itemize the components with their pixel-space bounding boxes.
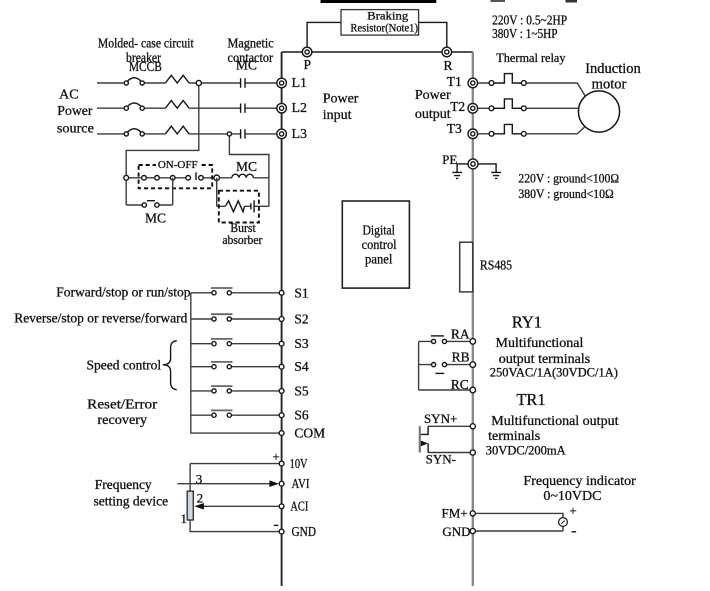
svg-text:SYN-: SYN- (426, 451, 456, 466)
svg-text:motor: motor (592, 77, 627, 93)
svg-text:ON-OFF: ON-OFF (158, 159, 198, 171)
svg-text:MC: MC (145, 211, 166, 226)
svg-text:380V : 1~5HP: 380V : 1~5HP (492, 26, 557, 41)
svg-text:RA: RA (451, 326, 470, 341)
svg-text:AC: AC (59, 88, 78, 103)
svg-text:Speed control: Speed control (86, 358, 161, 373)
svg-text:Power: Power (57, 104, 93, 119)
svg-text:L1: L1 (292, 76, 308, 91)
svg-text:control: control (362, 237, 397, 252)
svg-text:Frequency: Frequency (95, 477, 152, 492)
svg-text:T3: T3 (447, 121, 462, 136)
svg-text:setting device: setting device (93, 494, 168, 509)
svg-text:Magnetic: Magnetic (228, 36, 274, 51)
svg-text:R: R (443, 58, 452, 73)
svg-text:Reverse/stop or reverse/forwar: Reverse/stop or reverse/forward (14, 311, 187, 326)
svg-text:GND: GND (442, 524, 470, 539)
svg-text:source: source (57, 122, 94, 137)
svg-text:Reset/Error: Reset/Error (87, 397, 158, 412)
svg-text:input: input (323, 108, 352, 123)
svg-text:T2: T2 (450, 99, 465, 114)
svg-text:panel: panel (365, 252, 393, 267)
svg-text:MC: MC (236, 58, 257, 73)
svg-text:+: + (272, 449, 279, 464)
svg-text:S4: S4 (294, 359, 309, 374)
svg-text:Multifunctional: Multifunctional (496, 336, 584, 351)
svg-text:absorber: absorber (222, 232, 263, 247)
svg-text:Induction: Induction (585, 61, 641, 77)
svg-text:Thermal relay: Thermal relay (496, 50, 566, 65)
svg-text:0~10VDC: 0~10VDC (543, 489, 601, 504)
svg-text:P: P (304, 57, 312, 72)
svg-text:Power: Power (323, 92, 359, 107)
svg-text:S2: S2 (294, 312, 308, 327)
svg-text:Power: Power (415, 88, 451, 103)
svg-text:Forward/stop or run/stop: Forward/stop or run/stop (56, 284, 190, 299)
svg-text:MCCB: MCCB (129, 59, 162, 74)
svg-text:220V : ground<100Ω: 220V : ground<100Ω (518, 171, 619, 186)
svg-text:RY1: RY1 (512, 313, 542, 332)
svg-text:Digital: Digital (362, 223, 395, 238)
svg-text:RB: RB (452, 350, 470, 365)
svg-text:COM: COM (294, 426, 325, 441)
svg-text:2: 2 (197, 491, 204, 506)
svg-text:GND: GND (292, 525, 317, 540)
svg-text:MC: MC (236, 159, 257, 174)
svg-text:250VAC/1A(30VDC/1A): 250VAC/1A(30VDC/1A) (490, 365, 618, 379)
svg-text:output: output (415, 107, 451, 122)
svg-text:Frequency indicator: Frequency indicator (523, 474, 636, 489)
svg-text:S6: S6 (294, 408, 309, 423)
svg-text:T1: T1 (447, 74, 462, 89)
svg-text:380V : ground<10Ω: 380V : ground<10Ω (518, 186, 613, 201)
svg-text:AVI: AVI (292, 477, 310, 492)
svg-text:30VDC/200mA: 30VDC/200mA (486, 444, 566, 458)
svg-text:terminals: terminals (488, 429, 540, 444)
svg-text:10V: 10V (290, 457, 308, 472)
svg-text:S3: S3 (294, 336, 309, 351)
svg-text:recovery: recovery (97, 412, 147, 427)
svg-text:RC: RC (451, 377, 469, 392)
svg-text:RS485: RS485 (480, 257, 512, 272)
svg-text:PE: PE (442, 152, 457, 167)
svg-text:L2: L2 (292, 101, 308, 116)
svg-text:ACI: ACI (290, 500, 308, 515)
svg-text:1: 1 (180, 511, 187, 526)
svg-text:Molded- case circuit: Molded- case circuit (98, 36, 194, 51)
svg-text:S1: S1 (294, 285, 308, 300)
svg-text:FM+: FM+ (441, 506, 467, 521)
svg-text:+: + (569, 503, 576, 518)
svg-text:SYN+: SYN+ (424, 411, 457, 426)
svg-text:S5: S5 (294, 383, 309, 398)
svg-text:L3: L3 (292, 127, 308, 142)
svg-text:Resistor(Note1): Resistor(Note1) (350, 21, 418, 35)
svg-text:Multifunctional output: Multifunctional output (491, 414, 618, 429)
svg-text:3: 3 (196, 471, 203, 486)
svg-text:TR1: TR1 (516, 390, 545, 409)
